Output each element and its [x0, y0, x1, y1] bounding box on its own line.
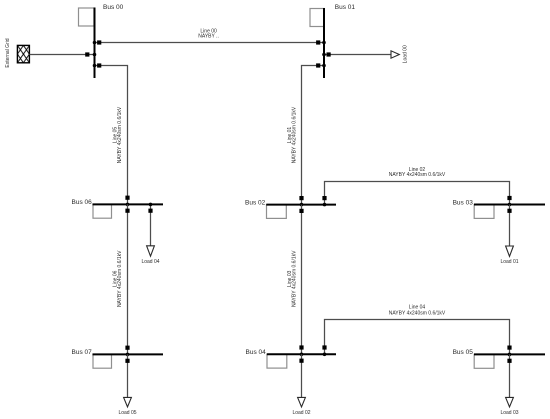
value label Line 01 NAYBY: [287, 106, 298, 163]
load Load 03: [506, 354, 514, 407]
label Load 04: [141, 259, 159, 265]
value label Line 06 NAYBY: [112, 250, 123, 307]
bus Bus 06: [93, 204, 164, 218]
value label Line 03 NAYBY: [287, 250, 298, 307]
label Bus 07: [72, 349, 93, 356]
node dot Line 05 on Bus 00: [93, 64, 97, 68]
load Load 05: [124, 354, 132, 407]
node dot Line 04 on Bus 05: [508, 353, 512, 357]
svg-text:NAYBY 4x240sm 0.6/1kV: NAYBY 4x240sm 0.6/1kV: [389, 311, 446, 317]
label Bus 01: [335, 4, 356, 11]
wire Line 06: [127, 204, 129, 354]
node dot Line 00 on Bus 00: [93, 41, 97, 45]
svg-text:NAYBY ..: NAYBY ..: [198, 34, 219, 40]
wire Line 03: [301, 205, 303, 355]
junction square Line 02 at Bus 03: [507, 196, 511, 200]
node dot Line 05 on Bus 06: [126, 203, 130, 207]
junction square Line 05 at Bus 06: [125, 196, 129, 200]
svg-text:Bus 01: Bus 01: [335, 4, 356, 11]
junction square Line 01 at Bus 01: [316, 63, 320, 67]
value label Line 00 NAYBY: [198, 29, 219, 40]
junction square Line 06 at Bus 07: [125, 346, 129, 350]
bus Bus 02: [266, 205, 336, 219]
svg-text:Bus 02: Bus 02: [245, 199, 266, 206]
svg-text:NAYBY 4x240sm 0.6/1kV: NAYBY 4x240sm 0.6/1kV: [117, 250, 123, 307]
external grid: [17, 45, 29, 62]
node dot Line 03 on Bus 04: [300, 353, 304, 357]
junction square Line 05 at Bus 00: [97, 63, 101, 67]
bus Bus 07: [93, 354, 164, 368]
junction square Line 06 at Bus 06: [125, 209, 129, 213]
value label Line 02 NAYBY: [389, 167, 446, 178]
junction square Line 03 at Bus 02: [299, 209, 303, 213]
svg-text:Bus 06: Bus 06: [72, 199, 93, 206]
svg-text:Bus 05: Bus 05: [453, 349, 474, 356]
label Load 00: [403, 45, 409, 63]
label External Grid: [5, 38, 11, 67]
node dot Line 02 on Bus 03: [508, 203, 512, 207]
svg-text:NAYBY 4x240sm 0.6/1kV: NAYBY 4x240sm 0.6/1kV: [117, 106, 123, 163]
svg-text:Load 04: Load 04: [141, 259, 159, 265]
bus Bus 04: [267, 354, 336, 368]
svg-text:Bus 03: Bus 03: [453, 199, 474, 206]
wire Line 01: [302, 66, 325, 205]
svg-text:External Grid: External Grid: [5, 38, 11, 67]
bus Bus 01: [310, 8, 324, 78]
svg-text:Load 03: Load 03: [500, 410, 518, 416]
bus Bus 00: [79, 8, 95, 79]
label Load 02: [292, 410, 310, 416]
label Bus 00: [103, 4, 124, 11]
junction square Line 00 at Bus 00: [97, 40, 101, 44]
node dot Line 00 on Bus 01: [322, 41, 326, 45]
label Bus 06: [72, 199, 93, 206]
wire external grid to Bus 00: [29, 54, 94, 56]
label Load 05: [118, 410, 136, 416]
wire Line 00: [95, 42, 325, 44]
svg-text:NAYBY 4x240sm 0.6/1kV: NAYBY 4x240sm 0.6/1kV: [292, 106, 298, 163]
svg-text:Bus 04: Bus 04: [246, 349, 267, 356]
label Bus 02: [245, 199, 266, 206]
node dot Line 02 on Bus 02: [323, 203, 327, 207]
wire Line 02: [325, 182, 510, 205]
junction square Line 02 at Bus 02: [322, 196, 326, 200]
load Load 04: [147, 203, 155, 257]
value label Line 04 NAYBY: [389, 305, 446, 317]
label Load 01: [500, 259, 518, 265]
wire Line 05: [95, 66, 128, 205]
junction square Line 01 at Bus 02: [299, 196, 303, 200]
svg-text:Load 00: Load 00: [403, 45, 409, 63]
svg-text:NAYBY 4x240sm 0.6/1kV: NAYBY 4x240sm 0.6/1kV: [389, 172, 446, 178]
node dot Line 01 on Bus 02: [300, 203, 304, 207]
junction square ext-grid connection: [85, 52, 89, 56]
load Load 02: [298, 354, 306, 407]
svg-text:NAYBY 4x240sm 0.6/1kV: NAYBY 4x240sm 0.6/1kV: [292, 250, 298, 307]
junction square Line 04 at Bus 05: [507, 346, 511, 350]
svg-text:Load 01: Load 01: [500, 259, 518, 265]
value label Line 05 NAYBY: [112, 106, 123, 163]
load Load 00: [322, 51, 399, 58]
label Load 03: [500, 410, 518, 416]
bus Bus 05: [474, 354, 545, 368]
label Bus 03: [453, 199, 474, 206]
node dot Line 04 on Bus 04: [323, 353, 327, 357]
svg-text:Load 05: Load 05: [118, 410, 136, 416]
label Bus 05: [453, 349, 474, 356]
node dot ext-grid on Bus 00: [93, 53, 97, 57]
junction square Line 03 at Bus 04: [299, 345, 303, 349]
junction square Line 00 at Bus 01: [316, 40, 320, 44]
node dot Line 01 on Bus 01: [322, 64, 326, 68]
label Bus 04: [246, 349, 267, 356]
svg-text:Bus 00: Bus 00: [103, 4, 124, 11]
bus Bus 03: [474, 205, 545, 219]
junction square Line 04 at Bus 04: [322, 345, 326, 349]
node dot Line 06 on Bus 07: [126, 353, 130, 357]
wire Line 04: [325, 320, 510, 355]
load Load 01: [506, 205, 514, 257]
svg-text:Load 02: Load 02: [292, 410, 310, 416]
svg-text:Bus 07: Bus 07: [72, 349, 93, 356]
